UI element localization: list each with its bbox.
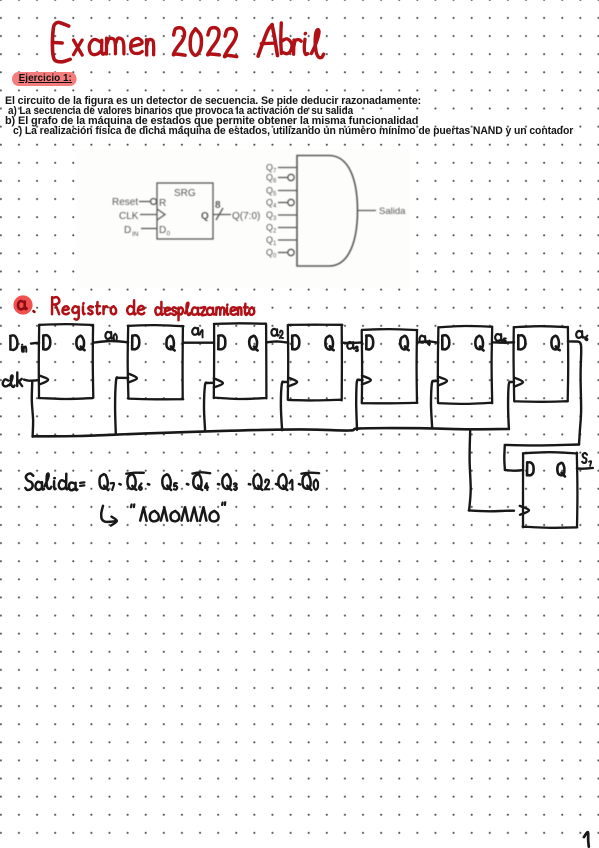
wire Q3: FF4.Q to FF5.D [342, 341, 362, 344]
FF2 pin label Q [166, 336, 174, 351]
wire Q5: FF6.Q to FF7.D [492, 341, 514, 344]
term Q4 (negated) [193, 474, 202, 490]
wire DIN to D0 [141, 228, 157, 230]
page number 1 [584, 832, 589, 847]
heading: Registro de desplazamiento [52, 297, 59, 314]
SRG register block U1 [157, 183, 213, 239]
multiply dot [187, 483, 188, 486]
FF1 pin label D [43, 335, 50, 349]
gate input Q4 (inverted) [278, 202, 288, 204]
flip-flop FF3 box [214, 323, 267, 399]
flip-flop FF2 box [128, 325, 184, 399]
clock triangle [157, 209, 165, 220]
wire Reset to R [139, 201, 150, 203]
gate input Q2 [278, 227, 297, 229]
FF2 pin label D [132, 335, 139, 349]
term Q5 [162, 474, 171, 490]
term Q6 (negated) [127, 474, 136, 490]
output wire [358, 210, 377, 212]
term Q0 (negated) [303, 474, 312, 490]
wire Q0: FF1.Q to FF2.D [93, 341, 128, 343]
FF3 pin label Q [249, 336, 257, 351]
node label Q2 [271, 329, 278, 336]
FF5 pin label Q [400, 336, 408, 350]
multiply dot [120, 483, 121, 486]
gate input Q7 [278, 167, 297, 169]
wire Q4: FF5.Q to FF6.D [417, 341, 438, 342]
gate input Q5 [278, 190, 297, 192]
node label Q1 [192, 328, 200, 335]
bus wire Q to Q(7:0) [213, 214, 231, 216]
FF8 pin label Q [557, 463, 565, 477]
gate input Q6 (inverted) [278, 177, 288, 179]
FF8 pin label D [527, 462, 534, 475]
wire clock riser to FF3 [204, 383, 207, 431]
FF3 pin label D [218, 335, 225, 349]
wire clock riser to FF4 [281, 382, 284, 431]
multiply dot [148, 483, 149, 486]
arrow (result) [101, 506, 116, 522]
term Q7 [100, 474, 109, 490]
flip-flop FF6 box [438, 326, 492, 404]
wire clock riser to FF7 [508, 382, 511, 429]
FF5 pin label D [366, 335, 373, 349]
FF6 pin label D [442, 335, 449, 349]
node label Q6 [576, 331, 584, 338]
flip-flop FF8 box (bottom right) [523, 452, 578, 528]
printed problem statement [5, 96, 421, 106]
multiply dot [276, 483, 277, 486]
NAND gate (8-input AND shape) U2 [297, 156, 358, 267]
flip-flop FF4 box [288, 325, 343, 401]
node label Q7 [582, 453, 587, 463]
wire CLK [140, 214, 157, 216]
flip-flop FF5 box [362, 329, 418, 403]
marker: red circled letter a [13, 295, 32, 314]
FF6 pin label Q [475, 336, 483, 351]
wire clock riser to FF6 [431, 381, 434, 428]
title: Examen 2022 Abril (red handwriting) [52, 22, 70, 61]
wire clk trunk down to clock bus [32, 381, 33, 437]
FF4 pin label D [292, 335, 299, 349]
wire Q2: FF3.Q to FF4.D [266, 341, 288, 342]
gate input Q1 [278, 239, 297, 241]
multiply dot [218, 483, 219, 486]
term Q2 [253, 474, 262, 490]
gate input Q3 [278, 214, 297, 216]
clock bus wire along bottom [33, 428, 509, 436]
term Q3 [222, 474, 231, 490]
wire clk to FF1 clock [24, 380, 39, 381]
section header Ejercicio 1 (highlighted) [12, 72, 77, 86]
wire clock riser to FF2 [115, 377, 118, 434]
multiply dot [299, 483, 300, 486]
scanned figure background [76, 149, 410, 288]
wire clock drop to FF8 [469, 430, 471, 511]
wire clock riser to FF5 [356, 380, 359, 430]
wire Q7: FF8.Q out [577, 467, 593, 470]
flip-flop FF7 box [514, 326, 569, 402]
input label clk [3, 379, 9, 386]
flip-flop FF1 box [39, 324, 94, 399]
inverter bubble on R [151, 199, 157, 205]
input label Din [10, 335, 17, 350]
FF7 pin label Q [551, 336, 559, 350]
FF1 pin label Q [76, 336, 84, 351]
FF4 pin label Q [325, 336, 333, 351]
wire Din to FF1.D [31, 342, 39, 345]
wire Q6: FF7.Q out, right then down to FF8.D [568, 341, 581, 444]
gate input Q0 (inverted) [278, 252, 288, 254]
node label Q3 [347, 342, 354, 349]
multiply dot [249, 483, 250, 486]
bus width slash 8 [216, 208, 223, 220]
FF7 pin label D [518, 335, 525, 349]
result string "10101110" [131, 504, 134, 507]
formula: Salida = Q7.Q6n.Q5.Q4n.Q3.Q2.Q1.Q0n [25, 473, 33, 489]
term Q1 [278, 474, 287, 490]
wire Q1: FF2.Q to FF3.D [183, 342, 214, 344]
node label Q4 [419, 336, 426, 343]
node label Q0 [105, 332, 112, 339]
node label Q5 [495, 334, 503, 341]
